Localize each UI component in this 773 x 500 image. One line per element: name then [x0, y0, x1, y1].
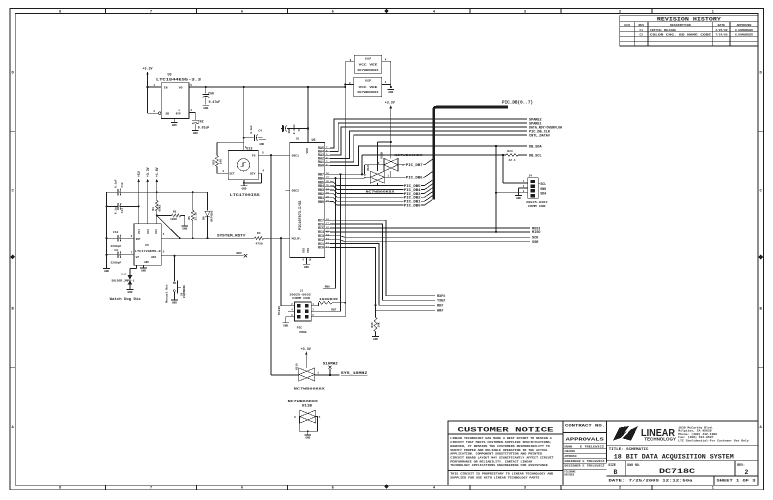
svg-text:U13: U13: [246, 148, 252, 152]
svg-text:COLOR CHG. BD NAME CODE: COLOR CHG. BD NAME CODE: [650, 34, 711, 37]
svg-text:OSC1: OSC1: [292, 153, 300, 157]
analog switch U11A: [299, 368, 315, 381]
supervisor U5 LTC1726EMS-8: [134, 224, 161, 265]
resistor 1000 ohm RB6 prog: [317, 303, 319, 306]
svg-text:SHEET 1 OF 3: SHEET 1 OF 3: [717, 480, 757, 484]
svg-text:GND: GND: [373, 338, 378, 341]
svg-text:U5: U5: [145, 244, 149, 247]
wire MOSI: [330, 227, 530, 229]
svg-text:C2: C2: [640, 34, 644, 37]
svg-text:GND: GND: [283, 324, 288, 327]
wire WDI with no-connect: [161, 255, 243, 257]
svg-text:SUPPLIED FOR USE WITH LINEAR T: SUPPLIED FOR USE WITH LINEAR TECHNOLOGY …: [450, 476, 540, 479]
analog switch U12B: [384, 158, 398, 171]
power pins box U11P: [354, 55, 382, 73]
svg-text:VCA: VCA: [155, 229, 158, 234]
svg-text:C12: C12: [121, 182, 124, 187]
ground J4: [519, 187, 524, 189]
svg-text:TXE#: TXE#: [437, 300, 445, 304]
ground: [181, 225, 188, 227]
wire SYS clock from U13 to U11A: [270, 155, 272, 375]
svg-text:U12B: U12B: [381, 152, 384, 159]
svg-text:GND: GND: [241, 187, 246, 190]
svg-text:LTC Confidential-For Customer: LTC Confidential-For Customer Use Only: [678, 439, 749, 442]
contract / approvals column: [606, 421, 608, 463]
ground U6 VSS: [305, 257, 307, 263]
svg-text:J1: J1: [300, 289, 304, 292]
svg-text:GND: GND: [388, 91, 393, 94]
svg-text:SCL: SCL: [540, 182, 546, 186]
svg-text:B: B: [614, 469, 618, 476]
svg-text:MCLR\: MCLR\: [292, 236, 301, 240]
revision history table: [620, 16, 758, 46]
connector J4 I2C COMM CON: [528, 178, 538, 198]
regulator U3 LTC1844ES5-3.3: [161, 83, 189, 119]
wire U13 V+ from 3.3V rail: [243, 86, 245, 88]
svg-text:WDI: WDI: [236, 252, 242, 255]
svg-text:WR#: WR#: [437, 310, 443, 314]
wire SCK: [330, 236, 530, 238]
wire J4 SCL: [502, 155, 504, 183]
+3.3V supply at U3 input: [147, 73, 149, 79]
svg-text:K.HAMBURGER: K.HAMBURGER: [735, 29, 753, 32]
wire RB7 to U12B: [330, 173, 364, 175]
svg-text:C1: C1: [640, 29, 644, 32]
svg-text:Watch Dog Dis: Watch Dog Dis: [110, 297, 141, 301]
svg-text:DIV: DIV: [250, 172, 255, 175]
svg-text:RB7: RB7: [331, 309, 336, 312]
wire 1.8V rail: [120, 191, 207, 193]
svg-text:C60: C60: [208, 91, 214, 95]
svg-text:VDD: VDD: [306, 148, 309, 154]
svg-text:VCC VEE: VCC VEE: [359, 86, 378, 89]
wire VEE tie right to gnd: [382, 60, 391, 62]
svg-text:DWG NO.: DWG NO.: [627, 463, 640, 467]
Linear Technology logo: [613, 426, 638, 441]
wire SYS_10MHZ: [314, 374, 316, 377]
svg-text:R53: R53: [213, 159, 216, 164]
wire U6 VDD from rail: [307, 86, 309, 88]
svg-text:RB0: RB0: [318, 201, 324, 205]
svg-text:REV: REV: [639, 23, 645, 27]
connector J1 PIC PROG: [295, 302, 312, 321]
svg-text:U11A: U11A: [296, 363, 299, 370]
svg-text:R23: R23: [507, 150, 513, 153]
power pins box U12P: [354, 77, 382, 96]
svg-text:PIC_DB6: PIC_DB6: [406, 176, 423, 180]
ground: [304, 434, 311, 436]
wire U3 input / SD tie: [147, 79, 149, 113]
svg-text:WDI: WDI: [151, 256, 156, 259]
svg-text:REVISED: REVISED: [565, 474, 575, 477]
svg-text:NC7WB66K8X: NC7WB66K8X: [294, 387, 325, 390]
svg-text:10K: 10K: [378, 322, 381, 327]
svg-text:GND: GND: [305, 436, 310, 439]
svg-text:CIRCUIT THAT MEETS CUSTOMER-SU: CIRCUIT THAT MEETS CUSTOMER-SUPPLIED SPE…: [450, 441, 551, 444]
svg-text:2: 2: [153, 110, 155, 113]
svg-text:APPROVED: APPROVED: [737, 23, 752, 27]
svg-text:+3.3V: +3.3V: [301, 348, 312, 352]
diagonal wire R3 node to RST: [157, 216, 180, 239]
svg-text:18 BIT DATA ACQUISITION SYSTEM: 18 BIT DATA ACQUISITION SYSTEM: [614, 453, 734, 460]
svg-text:0.1uF: 0.1uF: [250, 125, 253, 134]
svg-text:0.47uF: 0.47uF: [293, 124, 296, 134]
wire PIC_DB5: [330, 182, 425, 186]
svg-text:+5V: +5V: [137, 171, 141, 177]
svg-text:NC7WB66K8X: NC7WB66K8X: [288, 400, 319, 403]
wire J4 SDA: [495, 146, 497, 232]
svg-text:+3.3V: +3.3V: [385, 101, 395, 105]
svg-text:22.1: 22.1: [509, 159, 516, 162]
svg-text:RXF#: RXF#: [437, 295, 445, 299]
ground: [372, 336, 379, 338]
svg-text:REV:: REV:: [737, 463, 745, 467]
svg-text:CHECKED: CHECKED: [565, 450, 576, 453]
svg-text:ENGINEER E TRELEWICZ: ENGINEER E TRELEWICZ: [565, 460, 606, 463]
svg-text:U12P: U12P: [365, 80, 372, 83]
svg-text:NC7WB66K8X: NC7WB66K8X: [358, 91, 380, 94]
svg-text:VSS: VSS: [302, 248, 305, 253]
svg-text:RD#: RD#: [437, 305, 443, 309]
resistor R5: [192, 192, 194, 210]
svg-text:VSS: VSS: [307, 248, 310, 253]
svg-text:2: 2: [745, 469, 749, 476]
ground U13: [243, 180, 245, 186]
wire DATA_RDY/OVERFLOW: [330, 127, 527, 155]
svg-text:VO: VO: [179, 85, 183, 89]
svg-text:DB_SDA: DB_SDA: [529, 145, 543, 149]
svg-text:2/25/08: 2/25/08: [715, 28, 727, 32]
bus PIC_DB(0..7): [434, 107, 508, 200]
svg-text:TECHNOLOGY: TECHNOLOGY: [644, 436, 676, 441]
svg-text:F0: F0: [252, 154, 256, 158]
svg-text:TECHNOLOGY APPLICATIONS ENGINE: TECHNOLOGY APPLICATIONS ENGINEERING FOR …: [450, 464, 548, 467]
svg-text:K.HAMBURGER: K.HAMBURGER: [735, 34, 753, 37]
svg-text:U3: U3: [168, 74, 172, 78]
wire PIC_DB0: [330, 202, 425, 206]
svg-text:PIC_DB7: PIC_DB7: [406, 163, 423, 167]
svg-text:REVISION HISTORY: REVISION HISTORY: [657, 17, 722, 23]
wire PIC_DB1: [330, 198, 425, 202]
svg-text:2200pF: 2200pF: [111, 245, 122, 248]
svg-text:C10: C10: [113, 231, 119, 234]
svg-text:GND: GND: [182, 227, 187, 230]
ground: [103, 267, 110, 269]
svg-text:PIC_DB0: PIC_DB0: [404, 204, 421, 208]
svg-text:TITLE: SCHEMATIC: TITLE: SCHEMATIC: [609, 448, 649, 452]
svg-text:DESIGNER E TRELEWICZ: DESIGNER E TRELEWICZ: [565, 465, 606, 468]
capacitor C62 on BYP: [189, 112, 195, 114]
title block: [448, 421, 758, 485]
svg-text:U11P: U11P: [365, 57, 372, 60]
svg-text:20: 20: [296, 138, 300, 141]
svg-text:CIRCUIT BOARD LAYOUT MAY SIGNI: CIRCUIT BOARD LAYOUT MAY SIGNIFICANTLY A…: [450, 456, 554, 459]
wire SSR: [330, 240, 530, 242]
svg-text:SIZE: SIZE: [608, 463, 616, 467]
ground U5: [143, 265, 145, 267]
solder jumper Watch Dog Dis: [136, 265, 138, 268]
svg-text:GND: GND: [141, 270, 146, 273]
svg-text:1: 1: [153, 84, 155, 87]
svg-text:DB_SCL: DB_SCL: [529, 154, 542, 158]
wire RB6 stub label: [323, 287, 336, 289]
svg-text:5: 5: [262, 152, 264, 155]
svg-text:SYSTEM_RST#: SYSTEM_RST#: [217, 234, 246, 238]
svg-text:VERIFY PROPER AND RELIABLE OPE: VERIFY PROPER AND RELIABLE OPERATION IN …: [450, 449, 548, 452]
svg-text:DESCRIPTION: DESCRIPTION: [670, 23, 691, 27]
svg-text:CNTL_DATA#: CNTL_DATA#: [529, 134, 550, 138]
ground J1: [286, 316, 288, 318]
resistor R3: [155, 201, 158, 212]
wire PIC_DB7 from U12B: [398, 164, 425, 166]
svg-text:DRAWN: DRAWN: [565, 446, 573, 449]
svg-text:PIC16F873-I/SS: PIC16F873-I/SS: [298, 201, 303, 230]
svg-text:20025-0652: 20025-0652: [289, 293, 311, 296]
resistor R46: [374, 304, 376, 306]
svg-text:E TRELEWICZ: E TRELEWICZ: [580, 446, 605, 449]
wire RXF#: [330, 220, 435, 296]
svg-text:4: 4: [262, 169, 264, 172]
wire OSC2 stub: [285, 189, 289, 191]
svg-text:J4: J4: [529, 175, 533, 178]
capacitor ladder C12 C11 C10 C9: [107, 191, 118, 193]
svg-text:SOLDER_JMPR-1: SOLDER_JMPR-1: [112, 280, 136, 283]
ground: [387, 89, 394, 91]
svg-text:APPLICATION. COMPONENT SUBSTIT: APPLICATION. COMPONENT SUBSTITUTION AND …: [450, 453, 542, 456]
svg-text:5: 5: [190, 84, 192, 87]
svg-text:C11: C11: [121, 208, 124, 213]
svg-text:APPROVALS: APPROVALS: [566, 438, 605, 443]
svg-text:GND: GND: [172, 124, 177, 127]
svg-text:R4: R4: [257, 232, 261, 235]
microcontroller U6 PIC16F873-I/SS: [290, 142, 325, 257]
customer notice box: [562, 421, 564, 485]
svg-text:4: 4: [190, 109, 192, 112]
svg-text:+3.3V: +3.3V: [146, 167, 150, 177]
svg-text:HOWEVER, IT REMAINS THE CUSTOM: HOWEVER, IT REMAINS THE CUSTOMERS RESPON…: [450, 445, 550, 448]
wire VCC feed left: [349, 61, 354, 63]
wire SPARE1: [330, 123, 527, 152]
svg-text:LTC1799IS5: LTC1799IS5: [230, 194, 260, 198]
svg-text:GND: GND: [144, 261, 149, 264]
wire 3.3V to J1: [318, 316, 345, 318]
svg-text:0.1uF: 0.1uF: [114, 205, 117, 214]
resistor R53: [217, 141, 244, 143]
svg-text:COMM CON: COMM CON: [528, 205, 546, 208]
svg-text:SSR: SSR: [532, 241, 539, 245]
svg-text:1000D48: 1000D48: [319, 298, 338, 301]
ground: [259, 139, 266, 141]
svg-text:U6: U6: [312, 139, 316, 143]
capacitor C4: [244, 137, 254, 139]
wire DB_SCL with resistor R23: [361, 155, 363, 174]
power arrows +5V +3.3V +1.8V: [138, 180, 140, 224]
resistor R6: [157, 215, 172, 217]
svg-text:LTC1844ES5-3.3: LTC1844ES5-3.3: [156, 78, 201, 82]
wire U13 DIV to gnd: [258, 172, 261, 174]
svg-text:NC7WB66K8X: NC7WB66K8X: [394, 154, 422, 157]
svg-text:GND: GND: [540, 187, 546, 191]
svg-text:NC7WB66K8X: NC7WB66K8X: [358, 69, 380, 72]
svg-text:IN: IN: [164, 85, 168, 89]
center alignment diamonds: [384, 9, 389, 14]
svg-text:ECO: ECO: [624, 23, 630, 27]
wire MCLR# to J1: [280, 238, 282, 306]
wire RD#: [330, 244, 435, 306]
svg-text:COMM CON: COMM CON: [292, 297, 310, 300]
wire SYSTEM_RST#: [161, 237, 254, 239]
wire PIC_DB4: [330, 186, 425, 190]
svg-text:10K: 10K: [219, 159, 222, 164]
svg-text:7/24/09: 7/24/09: [715, 33, 727, 37]
svg-text:RA0: RA0: [318, 165, 324, 169]
svg-text:LINEAR TECHNOLOGY HAS MADE A B: LINEAR TECHNOLOGY HAS MADE A BEST EFFORT…: [450, 437, 552, 440]
oscillator U13 LTC1799IS5: [228, 151, 258, 180]
svg-text:GND: GND: [193, 132, 198, 135]
svg-text:R3: R3: [152, 207, 155, 211]
wire MISO: [330, 231, 530, 233]
svg-text:EVQPNB06B: EVQPNB06B: [183, 285, 186, 298]
svg-text:PIC_DB(0..7): PIC_DB(0..7): [502, 100, 533, 105]
wire WR#: [330, 248, 435, 311]
wire PIC_DB6 from U12A: [384, 176, 424, 178]
title rows: [607, 444, 759, 446]
svg-text:JL22: JL22: [121, 272, 127, 275]
wire PIC_DB_CLK: [330, 131, 527, 159]
svg-text:2200pF: 2200pF: [111, 262, 122, 265]
svg-text:RST: RST: [136, 238, 141, 241]
svg-text:OSC2: OSC2: [292, 188, 300, 192]
svg-text:C8: C8: [298, 128, 301, 132]
svg-text:R5: R5: [188, 216, 191, 220]
wire 3.3V drop to PIC PROG: [344, 62, 346, 317]
svg-text:33.2K: 33.2K: [195, 212, 198, 221]
ground: [171, 299, 178, 301]
wire TXE#: [330, 224, 435, 300]
wire PIC_DB2: [330, 194, 425, 198]
svg-text:+3.3V: +3.3V: [143, 67, 153, 71]
svg-text:Manual Rst: Manual Rst: [165, 284, 169, 303]
wire cap ladder bus to ground: [106, 192, 108, 268]
svg-text:U11B: U11B: [302, 404, 312, 408]
svg-text:100K: 100K: [170, 218, 177, 221]
svg-text:DATE: 7/25/2009 12:12:50a: DATE: 7/25/2009 12:12:50a: [609, 479, 694, 484]
wire SPARE2: [330, 119, 527, 148]
svg-text:VC1: VC1: [138, 229, 141, 234]
svg-text:SD: SD: [166, 111, 170, 115]
ground: [192, 129, 199, 131]
svg-text:C62: C62: [198, 120, 204, 124]
svg-text:LTC1726EMS-8: LTC1726EMS-8: [135, 250, 161, 253]
svg-text:VC2: VC2: [147, 229, 150, 234]
svg-text:PERFORMANCE OR RELIABILITY. CO: PERFORMANCE OR RELIABILITY. CONTACT LINE…: [450, 460, 532, 463]
svg-text:0.1uF: 0.1uF: [114, 179, 117, 188]
svg-text:GND: GND: [172, 301, 177, 304]
svg-text:20025-0362: 20025-0362: [526, 201, 548, 204]
ground: [202, 104, 209, 106]
wire CNTL_DATA#: [330, 135, 527, 162]
svg-text:GND: GND: [203, 107, 208, 110]
svg-text:0.47uF: 0.47uF: [209, 100, 221, 104]
svg-text:C4: C4: [258, 130, 262, 133]
svg-text:C9: C9: [114, 249, 118, 252]
svg-text:RB6: RB6: [325, 286, 330, 289]
svg-text:BAT42WS: BAT42WS: [210, 210, 213, 221]
svg-text:S10MHZ: S10MHZ: [323, 361, 338, 365]
wire RB7 prog: [318, 310, 340, 312]
svg-text:MCLR#: MCLR#: [278, 306, 281, 315]
svg-text:SET: SET: [229, 172, 234, 175]
svg-text:PIC: PIC: [297, 327, 303, 330]
svg-text:PROG: PROG: [299, 331, 306, 334]
wire U11B tie-off: [299, 417, 317, 432]
ground: [282, 322, 289, 324]
svg-text:R46: R46: [371, 322, 374, 327]
svg-text:D9: D9: [203, 216, 206, 220]
svg-text:SCK: SCK: [532, 237, 539, 241]
svg-text:APPROVED: APPROVED: [565, 455, 578, 458]
svg-text:SDA: SDA: [540, 192, 546, 196]
pushbutton S6 Manual Rst: [173, 256, 175, 282]
svg-text:VCC VEE: VCC VEE: [359, 64, 378, 67]
svg-text:GND: GND: [104, 270, 109, 273]
svg-text:WT: WT: [136, 256, 140, 259]
svg-text:R6: R6: [173, 210, 177, 213]
svg-text:3: 3: [222, 170, 224, 173]
svg-text:RC0: RC0: [318, 247, 324, 251]
svg-text:BYP: BYP: [176, 112, 181, 115]
wire 3.3V rail from U3 VO: [189, 86, 345, 88]
svg-text:THIS CIRCUIT IS PROPRIETARY TO: THIS CIRCUIT IS PROPRIETARY TO LINEAR TE…: [450, 473, 554, 476]
wire DB_SDA: [330, 146, 527, 166]
diode D9 BAT42WS: [205, 211, 210, 216]
capacitor C8: [287, 128, 308, 130]
resistor R4: [254, 237, 263, 240]
wire U13 F0 output to OSC1: [258, 154, 290, 156]
svg-text:GND: GND: [304, 266, 309, 269]
svg-text:4750: 4750: [256, 242, 263, 245]
svg-text:GND: GND: [259, 143, 264, 146]
ground U3: [173, 119, 175, 123]
svg-text:INITIAL RELEASE: INITIAL RELEASE: [650, 29, 676, 32]
svg-text:0.01uF: 0.01uF: [198, 126, 210, 130]
ground: [127, 289, 134, 291]
analog switch U12A: [370, 171, 384, 183]
svg-text:CONTRACT NO.: CONTRACT NO.: [565, 424, 605, 428]
svg-text:+1.8V: +1.8V: [155, 167, 159, 177]
svg-text:DATE: DATE: [718, 23, 726, 27]
svg-text:DC718C: DC718C: [659, 468, 696, 475]
svg-text:CUSTOMER NOTICE: CUSTOMER NOTICE: [458, 426, 554, 433]
svg-text:GND: GND: [127, 291, 132, 294]
svg-text:GND: GND: [516, 197, 521, 200]
svg-text:68K5: 68K5: [159, 204, 162, 211]
wire RB6 to U12A: [330, 177, 370, 178]
capacitor C60: [205, 86, 207, 88]
svg-text:MISO: MISO: [532, 231, 540, 235]
wire PIC_DB3: [330, 190, 425, 194]
svg-text:GND: GND: [288, 128, 291, 133]
